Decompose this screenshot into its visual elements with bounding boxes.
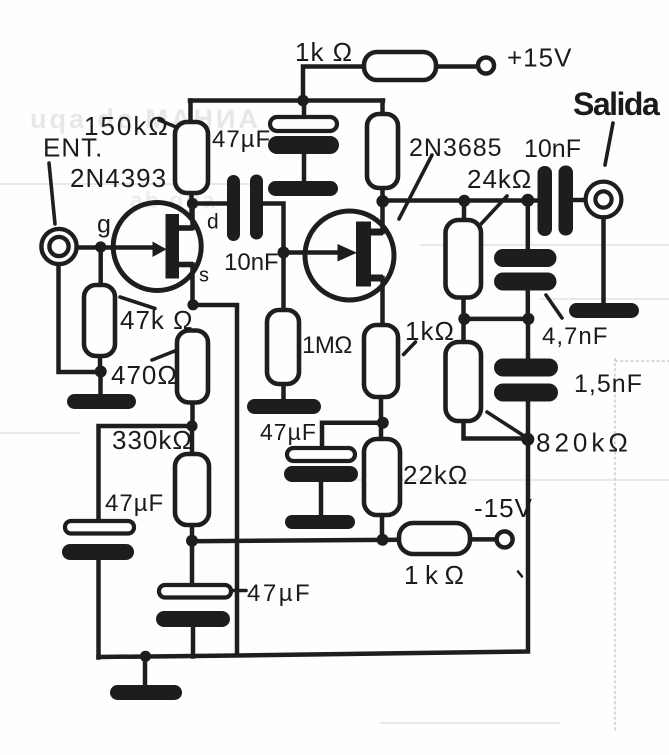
svg-text:d: d [207, 211, 220, 234]
svg-text:47µF: 47µF [105, 490, 164, 517]
svg-text:47µF: 47µF [212, 126, 271, 153]
svg-text:1kΩ: 1kΩ [405, 316, 455, 346]
svg-text:g: g [97, 211, 112, 239]
svg-text:22kΩ: 22kΩ [403, 460, 468, 490]
svg-text:1kΩ: 1kΩ [404, 560, 470, 590]
svg-text:1k Ω: 1k Ω [295, 37, 353, 67]
svg-text:820kΩ: 820kΩ [536, 428, 632, 458]
svg-text:2N4393: 2N4393 [70, 163, 167, 193]
svg-text:330kΩ: 330kΩ [112, 425, 193, 455]
svg-text:47k Ω: 47k Ω [120, 305, 194, 335]
svg-text:Salida: Salida [573, 86, 660, 122]
svg-text:s: s [199, 265, 210, 287]
svg-text:-15V: -15V [474, 493, 533, 523]
svg-text:1MΩ: 1MΩ [302, 332, 352, 359]
svg-text:47µF: 47µF [247, 580, 312, 607]
svg-text:1,5nF: 1,5nF [574, 370, 643, 398]
svg-text:+15V: +15V [507, 43, 572, 73]
svg-text:2N3685: 2N3685 [409, 134, 503, 162]
svg-text:ENT.: ENT. [43, 133, 103, 163]
svg-text:47µF: 47µF [260, 419, 317, 445]
svg-text:10nF: 10nF [224, 249, 279, 276]
svg-text:10nF: 10nF [524, 135, 581, 163]
svg-text:24kΩ: 24kΩ [467, 164, 532, 194]
svg-text:4,7nF: 4,7nF [542, 323, 608, 350]
svg-text:470Ω: 470Ω [111, 360, 178, 390]
